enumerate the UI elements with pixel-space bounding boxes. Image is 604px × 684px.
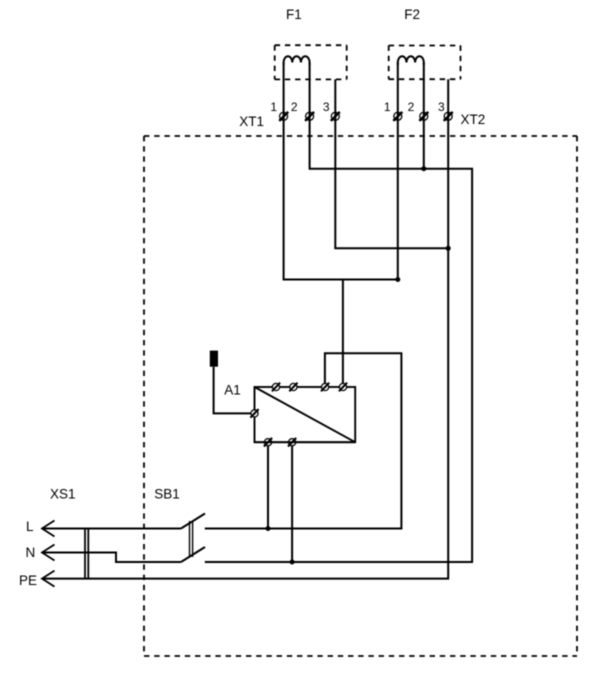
svg-text:N: N [26, 545, 36, 560]
svg-text:1: 1 [270, 100, 277, 114]
svg-text:XS1: XS1 [50, 487, 76, 502]
svg-text:A1: A1 [224, 383, 241, 398]
svg-text:SB1: SB1 [154, 487, 180, 502]
svg-text:PE: PE [19, 573, 37, 588]
svg-text:3: 3 [323, 100, 330, 114]
svg-text:F1: F1 [286, 7, 302, 22]
svg-text:2: 2 [408, 100, 415, 114]
svg-text:XT1: XT1 [239, 114, 264, 129]
svg-text:2: 2 [291, 100, 298, 114]
svg-text:1: 1 [384, 100, 391, 114]
svg-text:XT2: XT2 [461, 112, 486, 127]
svg-text:3: 3 [438, 100, 445, 114]
svg-text:F2: F2 [404, 7, 420, 22]
svg-text:L: L [26, 519, 34, 534]
